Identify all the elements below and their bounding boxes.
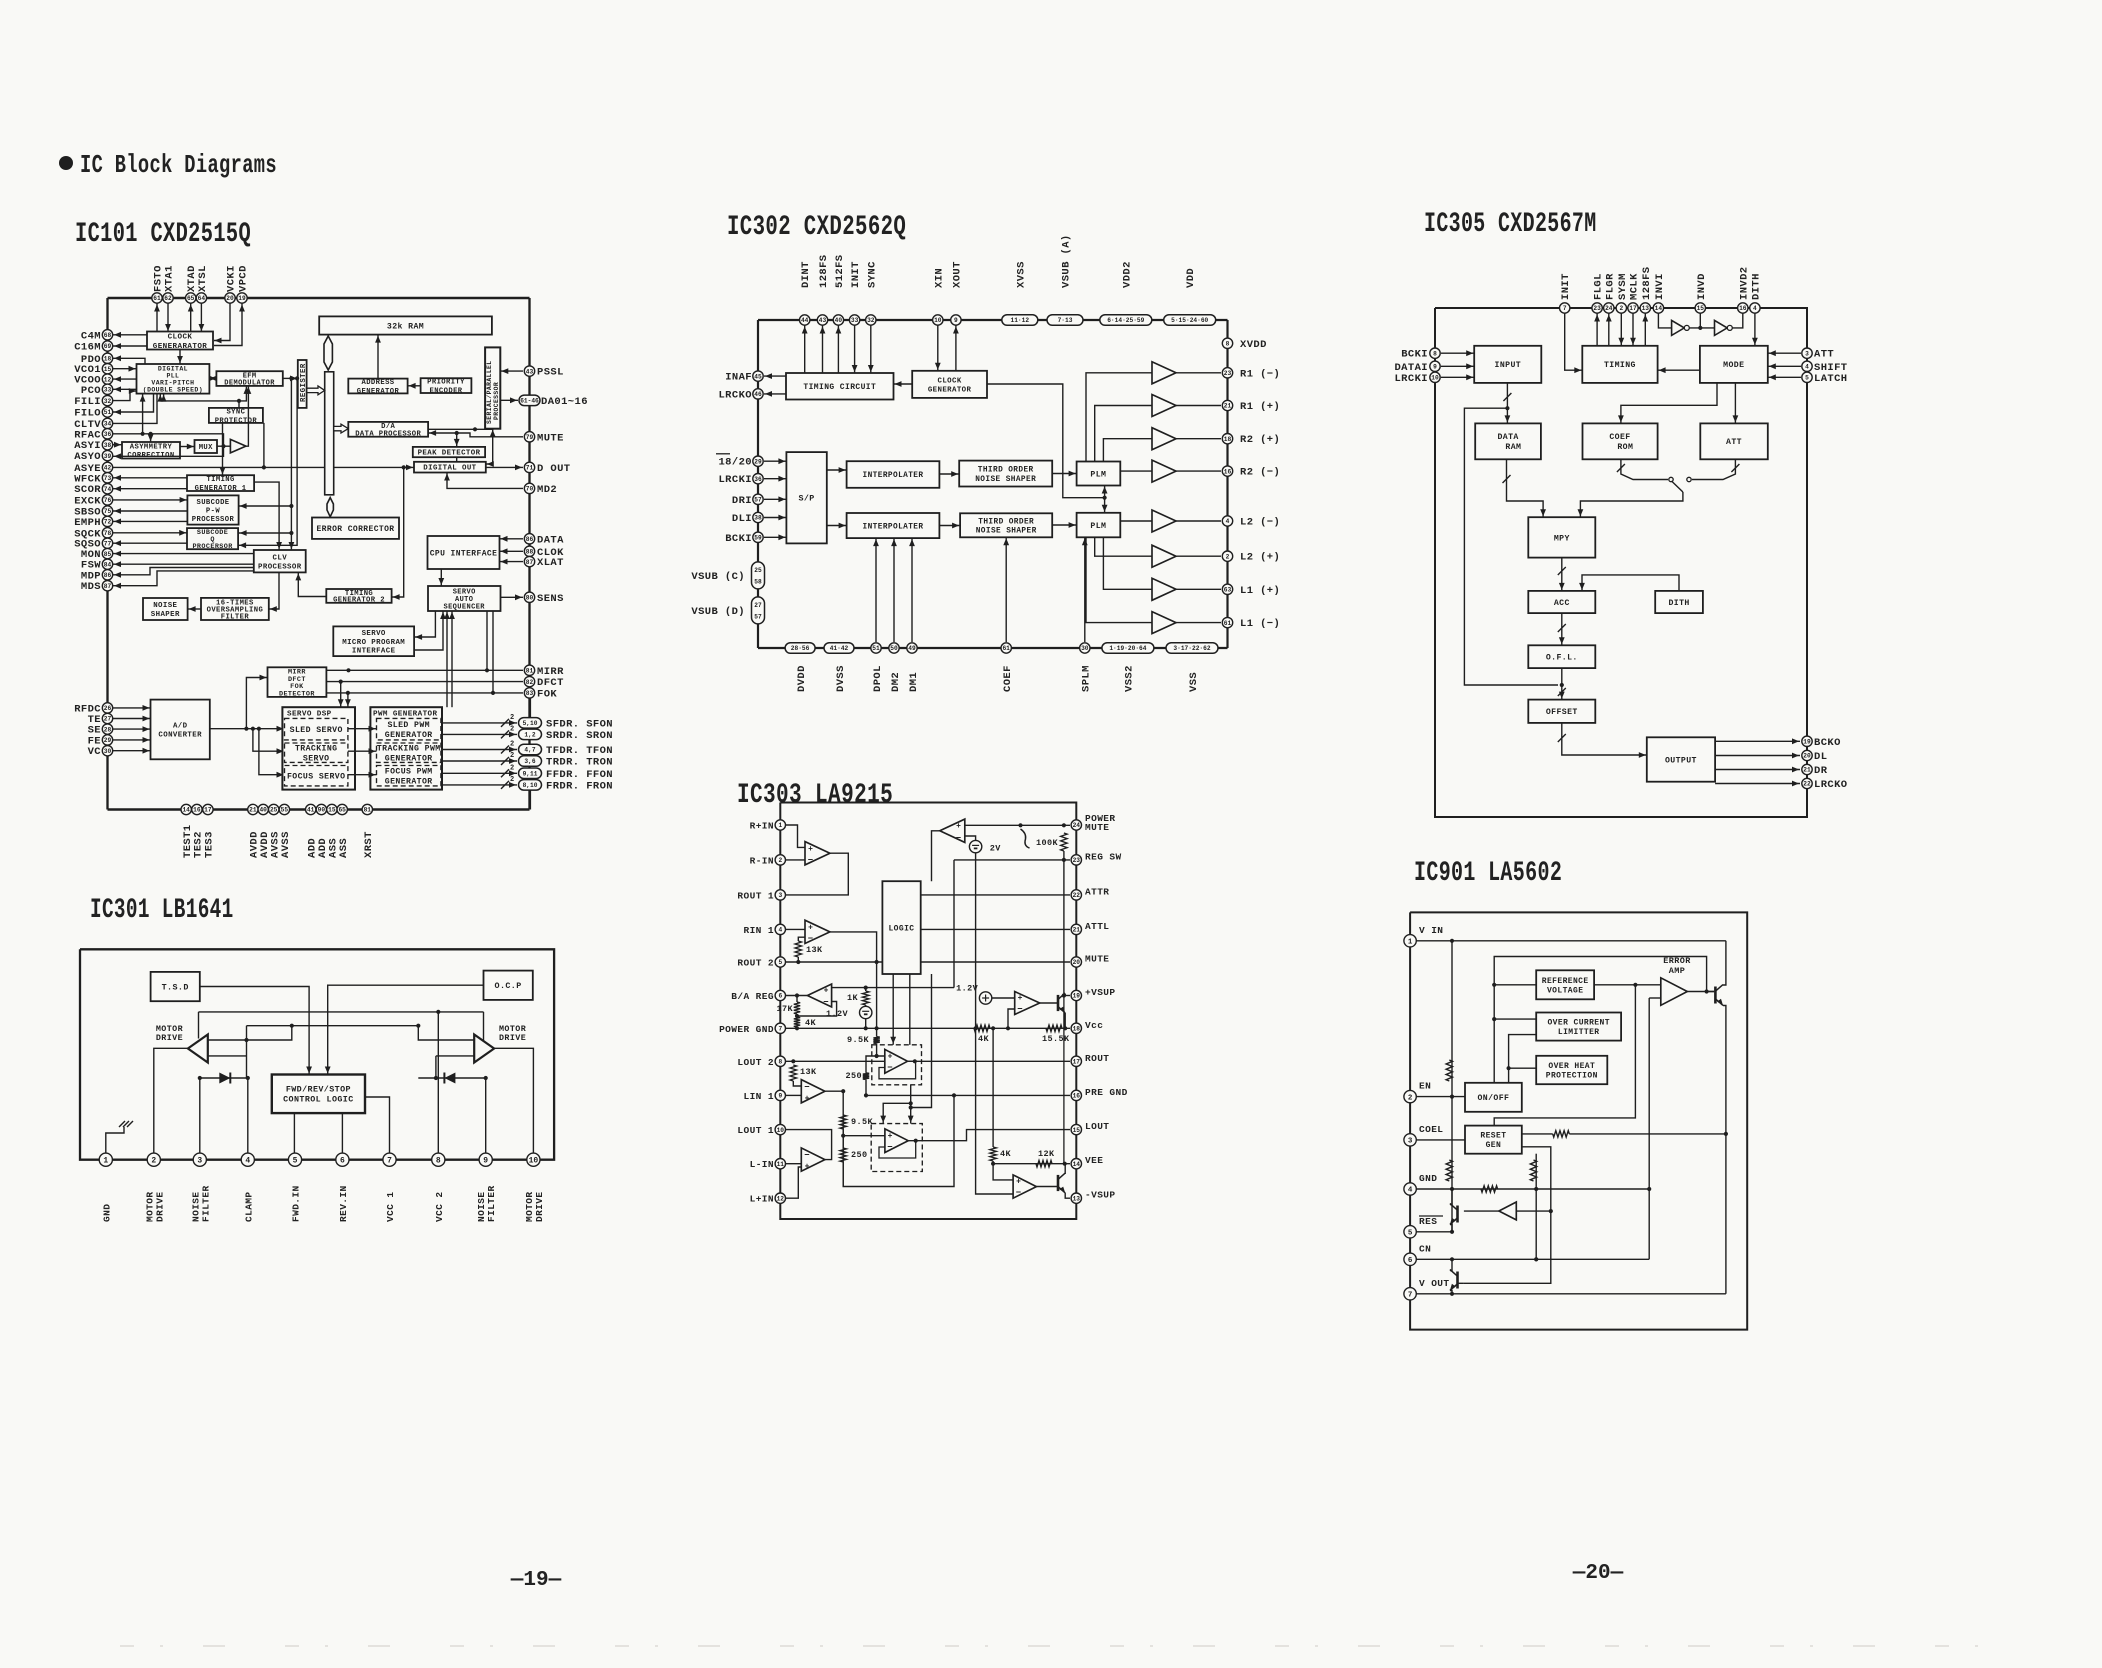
IC101 pin 81 MIRR xyxy=(524,665,534,675)
block CLOCK GENERATOR (IC302) xyxy=(912,371,987,398)
svg-text:1: 1 xyxy=(1408,939,1413,947)
IC301 pin 2 MOTOR DRIVE xyxy=(147,1153,160,1166)
svg-text:21: 21 xyxy=(1803,767,1811,774)
svg-text:GENERATOR 2: GENERATOR 2 xyxy=(333,597,385,605)
wire A6 out to LOUT xyxy=(908,1130,1070,1141)
svg-text:PROTECTOR: PROTECTOR xyxy=(215,417,258,425)
wire logic to pin7 xyxy=(365,1097,390,1160)
wire PDO xyxy=(113,358,145,364)
wire Q2 collector xyxy=(1450,1259,1452,1270)
transistor Q2 xyxy=(1450,1270,1458,1291)
wire pin4 riser xyxy=(247,1078,249,1160)
wire Q2 emitter to V OUT xyxy=(1450,1291,1452,1294)
svg-text:INTERFACE: INTERFACE xyxy=(352,647,396,655)
svg-text:15.5K: 15.5K xyxy=(1042,1034,1070,1044)
svg-text:100K: 100K xyxy=(1036,838,1059,848)
IC101 bottom pin 25 AV&#8203;SS xyxy=(269,804,279,814)
IC302 pin 63 L1 (+) xyxy=(1222,584,1232,594)
amplifier for R2 (&#8722;) xyxy=(1152,460,1176,482)
svg-text:SENS: SENS xyxy=(537,593,564,605)
svg-text:NOISE SHAPER: NOISE SHAPER xyxy=(975,476,1036,484)
block FOCUS SERVO (dashed) xyxy=(285,766,348,786)
wire DATA to CPU interface xyxy=(500,538,524,540)
svg-text:23: 23 xyxy=(1073,857,1081,864)
svg-text:ROUT: ROUT xyxy=(1085,1053,1109,1064)
wire A5 feedback xyxy=(879,1061,916,1079)
wire clock gen to digital PLL xyxy=(179,350,181,365)
svg-text:LOGIC: LOGIC xyxy=(888,924,914,933)
svg-text:17: 17 xyxy=(204,807,212,814)
svg-text:SERVO DSP: SERVO DSP xyxy=(287,711,332,719)
wire rail to pin8 xyxy=(437,1012,439,1160)
svg-text:−: − xyxy=(808,856,813,866)
svg-text:FLGL: FLGL xyxy=(1593,273,1605,300)
svg-text:—20—: —20— xyxy=(1572,1562,1624,1585)
block OVER HEAT PROTECTION xyxy=(1536,1056,1607,1084)
svg-text:PROCESSOR: PROCESSOR xyxy=(258,563,302,571)
svg-text:4K: 4K xyxy=(805,1018,817,1028)
svg-text:SEQUENCER: SEQUENCER xyxy=(443,603,485,611)
wire A6 feedback xyxy=(879,1141,916,1158)
wire RFAC up to PLL xyxy=(142,394,144,434)
dashed box R power amp xyxy=(872,1045,922,1085)
svg-text:DM2: DM2 xyxy=(890,672,902,692)
svg-text:27: 27 xyxy=(754,602,762,609)
wire 17K 4K chain xyxy=(796,996,798,1003)
svg-text:C16M: C16M xyxy=(74,342,101,354)
block DIGITAL OUT xyxy=(414,462,486,473)
wire ACC to OFL xyxy=(1561,613,1563,645)
wire PCO xyxy=(113,388,137,390)
switch contacts xyxy=(1669,477,1673,481)
svg-text:PCO: PCO xyxy=(81,385,101,397)
wire MUTE xyxy=(921,961,1070,963)
wire amp out to pin 18 xyxy=(1176,438,1221,440)
wire pwm output TRDR. TRON xyxy=(441,760,517,762)
svg-text:9.5K: 9.5K xyxy=(851,1117,874,1127)
wire PLM1 to R2- amp xyxy=(1120,470,1152,472)
svg-text:VCC 1: VCC 1 xyxy=(385,1191,396,1222)
svg-text:61: 61 xyxy=(1002,645,1010,652)
IC301 pin 1 GND xyxy=(99,1153,112,1166)
resistor 250 upper xyxy=(863,1073,869,1080)
svg-text:33: 33 xyxy=(104,387,112,394)
wire VCOO xyxy=(113,378,137,380)
svg-text:FWD/REV/STOP: FWD/REV/STOP xyxy=(286,1085,351,1095)
block MODE xyxy=(1700,346,1768,383)
wire DRI to S/P xyxy=(764,498,786,500)
wire LATCH to MODE xyxy=(1768,376,1801,378)
svg-text:GENERATOR 1: GENERATOR 1 xyxy=(195,485,247,493)
svg-text:2: 2 xyxy=(510,752,514,760)
wire MODE to ATT xyxy=(1734,383,1736,424)
wire SERVO AUTO SEQ to SENS xyxy=(501,596,524,598)
svg-text:ATTR: ATTR xyxy=(1085,886,1109,897)
+VSUP transistor xyxy=(1058,993,1065,1013)
wire DA01-16 from serial/parallel xyxy=(500,399,518,401)
svg-text:3,6: 3,6 xyxy=(524,758,535,765)
switch lever xyxy=(1672,481,1683,492)
IC303 pin 20 MUTE xyxy=(1071,957,1081,967)
wire buffer out to Q1 xyxy=(1464,1210,1499,1212)
svg-text:80: 80 xyxy=(526,595,534,602)
block CLV PROCESSOR xyxy=(254,550,306,572)
wire down to CLV processor top xyxy=(289,531,293,535)
svg-text:7: 7 xyxy=(1408,1292,1413,1300)
wire pwm output SFDR. SFON xyxy=(441,722,517,724)
wire amp to -VSUP transistor xyxy=(1036,1186,1058,1188)
svg-text:16: 16 xyxy=(193,807,201,814)
wire V IN line xyxy=(1416,940,1726,942)
svg-text:DR: DR xyxy=(1814,765,1828,777)
supply rail right xyxy=(1063,860,1065,996)
wire CLV to oversampling filter xyxy=(269,572,279,609)
IC101 bottom pin 41 A&#8203;DD xyxy=(306,804,316,814)
voltage source 1.2V (+VSUP) xyxy=(979,992,991,1004)
svg-text:R2 (−): R2 (−) xyxy=(1240,467,1280,479)
svg-text:SCOR: SCOR xyxy=(74,484,101,496)
svg-text:62: 62 xyxy=(164,295,172,302)
wire A4 out xyxy=(825,1091,954,1186)
block INTERPOLATER 2 xyxy=(847,513,940,538)
svg-text:GENERATOR: GENERATOR xyxy=(928,386,972,394)
wire mode to timing xyxy=(1658,369,1700,371)
wire ASYE line to timing gen2 xyxy=(392,467,404,597)
svg-text:86: 86 xyxy=(104,572,112,579)
wire PLM1 to R1+ amp xyxy=(1095,406,1152,462)
wire DATAI to INPUT xyxy=(1441,365,1474,367)
block S/P xyxy=(786,452,826,543)
mute amp (points left) xyxy=(940,819,965,842)
svg-text:SLED SERVO: SLED SERVO xyxy=(290,726,343,735)
svg-text:SLED PWM: SLED PWM xyxy=(387,721,430,730)
svg-text:SHAPER: SHAPER xyxy=(151,611,180,619)
wire register line 2 down to subcode Q xyxy=(238,378,297,545)
svg-text:−: − xyxy=(887,1063,892,1073)
wire TIMING GEN1 to CLV xyxy=(254,482,279,550)
svg-text:23: 23 xyxy=(1593,305,1601,312)
wire OCP to control logic xyxy=(328,985,484,1074)
wire left rail xyxy=(1451,941,1453,1232)
svg-text:20: 20 xyxy=(1073,959,1081,966)
wire RFAC xyxy=(113,434,224,446)
resistor 250 lower xyxy=(840,1148,846,1162)
IC302 pin 28&#183;56 DVDD xyxy=(785,643,815,654)
svg-text:GENERATOR: GENERATOR xyxy=(385,755,433,764)
svg-text:−: − xyxy=(887,1143,892,1153)
IC302 pin 27-57 VSUB (D) xyxy=(752,597,765,624)
IC303 pin 19 +VSUP xyxy=(1071,990,1081,1000)
svg-text:Vcc: Vcc xyxy=(1085,1020,1103,1031)
wire PLM1 to R1- amp xyxy=(1086,373,1152,462)
wire BCKI to INPUT xyxy=(1441,352,1474,354)
svg-text:L1 (−): L1 (−) xyxy=(1240,618,1280,630)
wire DATA RAM to MPY xyxy=(1507,459,1544,517)
wire amp out to pin 21 xyxy=(1176,405,1221,407)
svg-text:IC301 LB1641: IC301 LB1641 xyxy=(90,895,234,926)
svg-text:TIMING CIRCUIT: TIMING CIRCUIT xyxy=(803,383,876,392)
wire MODE to COEF ROM xyxy=(1621,383,1717,424)
svg-text:+: + xyxy=(1016,1178,1021,1187)
svg-text:86: 86 xyxy=(526,536,534,543)
wire A2 out to ROUT2 line xyxy=(830,932,877,962)
svg-text:7: 7 xyxy=(778,1026,782,1033)
svg-text:ENCODER: ENCODER xyxy=(430,388,463,396)
svg-text:ROUT 1: ROUT 1 xyxy=(737,890,774,901)
svg-text:INTERPOLATER: INTERPOLATER xyxy=(863,523,924,531)
svg-text:AVSS: AVSS xyxy=(280,831,292,858)
svg-text:70: 70 xyxy=(526,486,534,493)
svg-text:39: 39 xyxy=(104,453,112,460)
svg-text:XIN: XIN xyxy=(933,268,945,288)
svg-text:+: + xyxy=(805,1095,810,1104)
svg-text:COEL: COEL xyxy=(1419,1124,1443,1135)
wire upper rail left drop xyxy=(198,1012,200,1039)
block SUBCODE P-W PROCESSOR xyxy=(187,495,238,524)
wire OUTPUT to LRCKO xyxy=(1715,783,1800,785)
resistor 4K (VEE) xyxy=(990,1147,996,1161)
IC301 pin 10 MOTOR DRIVE xyxy=(527,1153,540,1166)
wire ROUT2 junction down rail xyxy=(876,962,878,1037)
svg-text:RIN 1: RIN 1 xyxy=(743,925,774,936)
svg-text:ASYMMETRY: ASYMMETRY xyxy=(130,443,173,451)
svg-text:DLI: DLI xyxy=(732,513,752,525)
IC302 pin 50 DM2 xyxy=(889,643,899,653)
svg-text:79: 79 xyxy=(526,434,534,441)
wire SMPI to SAS xyxy=(414,611,443,650)
IC301 pin 4 CLAMP xyxy=(241,1153,254,1166)
wire supply rail to VEE xyxy=(1063,996,1065,1164)
wire clock gen to C4M pin 68 xyxy=(113,334,147,336)
IC101 pin 70 MD2 xyxy=(524,483,534,493)
svg-text:32: 32 xyxy=(867,317,875,324)
block SERVO AUTO SEQUENCER xyxy=(428,586,501,611)
svg-text:SERVO: SERVO xyxy=(362,630,386,638)
svg-text:13: 13 xyxy=(1073,1195,1081,1202)
svg-text:8: 8 xyxy=(1226,341,1230,348)
svg-text:BCKI: BCKI xyxy=(1401,349,1428,361)
svg-text:30: 30 xyxy=(104,748,112,755)
amplifier for L1 (+) xyxy=(1152,578,1176,600)
svg-text:CLV: CLV xyxy=(273,554,288,562)
wire mid rail to RESET xyxy=(1494,985,1635,1126)
wire L+IN to A7 plus xyxy=(786,1167,801,1198)
svg-text:L+IN: L+IN xyxy=(750,1194,774,1205)
svg-text:51: 51 xyxy=(872,645,880,652)
svg-text:13K: 13K xyxy=(800,1067,817,1077)
block PLM 2 xyxy=(1077,513,1121,538)
svg-text:13: 13 xyxy=(1642,305,1650,312)
wire inverter2 to pin16 xyxy=(1732,314,1743,328)
svg-text:−: − xyxy=(804,1151,809,1161)
IC101 pin 87 XLAT xyxy=(524,556,534,566)
wire noise shaper2 to PLM2 xyxy=(1052,524,1076,526)
svg-text:25: 25 xyxy=(270,807,278,814)
wire oversampling to noise shaper xyxy=(188,608,201,610)
amp A7 L-IN xyxy=(801,1148,825,1171)
svg-text:2V: 2V xyxy=(990,843,1002,853)
svg-text:ATT: ATT xyxy=(1814,349,1834,361)
block ON/OFF xyxy=(1465,1083,1522,1112)
svg-text:XTA1: XTA1 xyxy=(164,265,176,292)
wire branch to tracking servo xyxy=(251,727,255,731)
wire -VSUP transistor collector xyxy=(1064,1164,1066,1174)
wire pin4 DITH to mode xyxy=(1754,314,1756,346)
wire ON/OFF up branch xyxy=(1509,1035,1537,1083)
svg-text:51: 51 xyxy=(104,409,112,416)
svg-text:DATA: DATA xyxy=(1497,433,1518,442)
wire pin33 to timing xyxy=(854,326,856,374)
wire POWER GND line xyxy=(786,1027,1070,1029)
wire R+IN to amp xyxy=(786,825,805,847)
svg-text:14: 14 xyxy=(1073,1161,1081,1168)
svg-text:5: 5 xyxy=(293,1157,298,1166)
wire tracking servo to tracking pwm xyxy=(348,750,377,752)
svg-text:14: 14 xyxy=(182,807,190,814)
IC302 pin 61 COEF xyxy=(1001,643,1011,653)
svg-text:SRDR. SRON: SRDR. SRON xyxy=(546,730,613,742)
wire MPY to ACC xyxy=(1561,558,1563,591)
svg-text:VC: VC xyxy=(88,746,102,758)
wire RFAC down to asymmetry xyxy=(150,434,152,442)
wire logic to pin5 xyxy=(293,1113,295,1160)
svg-text:+: + xyxy=(808,924,813,933)
svg-text:−: − xyxy=(1017,1005,1022,1015)
block SYNC PROTECTOR xyxy=(209,408,263,425)
svg-text:+: + xyxy=(956,822,961,831)
svg-text:L2 (−): L2 (−) xyxy=(1240,517,1280,529)
IC305 pin 21 DR xyxy=(1802,764,1812,774)
wire ADDRESS GENERATOR to 32k RAM xyxy=(377,335,379,379)
svg-text:83: 83 xyxy=(526,690,534,697)
svg-text:—19—: —19— xyxy=(510,1569,562,1592)
svg-text:LATCH: LATCH xyxy=(1814,373,1848,385)
IC302 pin 29 18/20 xyxy=(753,456,763,466)
svg-text:85: 85 xyxy=(104,551,112,558)
wire LOGIC down C xyxy=(911,974,932,1108)
wire Q2 base xyxy=(1458,1282,1464,1284)
svg-text:20: 20 xyxy=(226,295,234,302)
svg-text:18: 18 xyxy=(104,356,112,363)
wire pin1 ground xyxy=(106,1127,124,1160)
wire SAS down to PWM generator B xyxy=(451,611,453,707)
svg-text:9,11: 9,11 xyxy=(523,771,538,778)
wire amp out to pin 61 xyxy=(1176,622,1221,624)
IC303 pin 17 ROUT xyxy=(1071,1056,1081,1066)
amplifier for L2 (+) xyxy=(1152,545,1176,567)
block TIMING xyxy=(1582,346,1657,383)
svg-text:2: 2 xyxy=(1619,305,1623,312)
svg-text:SFDR. SFON: SFDR. SFON xyxy=(546,718,613,730)
svg-text:61-46: 61-46 xyxy=(520,398,539,405)
block SERIAL/PARALLEL PROCESSOR xyxy=(485,347,500,428)
wire A3 feedback xyxy=(797,1002,837,1017)
svg-text:5: 5 xyxy=(1805,375,1809,382)
svg-text:3: 3 xyxy=(197,1157,202,1166)
svg-text:4: 4 xyxy=(245,1157,250,1166)
wire SE to A/D converter xyxy=(113,728,151,730)
IC301 pin 9 NOISE FILTER xyxy=(479,1153,492,1166)
svg-text:IC303 LA9215: IC303 LA9215 xyxy=(737,779,893,811)
wire ATTR xyxy=(921,894,1070,896)
svg-text:+: + xyxy=(888,1053,893,1062)
svg-text:43: 43 xyxy=(526,368,534,375)
wire pin32 to timing xyxy=(870,326,872,374)
wire CLTV xyxy=(113,394,157,424)
svg-text:FFDR. FFON: FFDR. FFON xyxy=(546,769,613,781)
svg-text:17K: 17K xyxy=(776,1004,793,1014)
svg-text:L1 (+): L1 (+) xyxy=(1240,585,1280,597)
svg-text:16: 16 xyxy=(1739,305,1747,312)
svg-text:INIT: INIT xyxy=(850,261,862,288)
wire COEF riser xyxy=(1005,537,1007,642)
IC305 outer border xyxy=(1435,308,1807,817)
wire box link branch xyxy=(883,1103,911,1123)
svg-text:MDS: MDS xyxy=(81,581,101,593)
wire motor drive L upper input xyxy=(208,1026,292,1040)
svg-text:DITH: DITH xyxy=(1668,599,1689,608)
diode D1 xyxy=(219,1073,230,1084)
wire PLM1 to R2+ amp xyxy=(1103,439,1152,462)
wire OUTPUT to BCKO xyxy=(1715,740,1800,742)
wire branch to subcode P-W upper xyxy=(289,504,293,508)
svg-text:S/P: S/P xyxy=(798,494,814,504)
resistor 9.5K lower xyxy=(840,1115,846,1129)
IC301 pin 6 REV.IN xyxy=(336,1153,349,1166)
wire register line down to subcode P-W xyxy=(239,378,292,533)
svg-text:1K: 1K xyxy=(847,993,859,1003)
wire clock gen to timing xyxy=(894,383,913,385)
svg-text:41: 41 xyxy=(307,807,315,814)
wire focus servo to focus pwm xyxy=(348,774,377,776)
svg-text:LRCKO: LRCKO xyxy=(1814,779,1848,791)
wire motor L output to pin2 xyxy=(154,1048,188,1159)
amp A6 L power xyxy=(885,1129,908,1153)
svg-text:81: 81 xyxy=(364,807,372,814)
svg-text:40: 40 xyxy=(259,807,267,814)
svg-text:82: 82 xyxy=(526,679,534,686)
wire peak detector to digital out xyxy=(456,457,458,462)
inverter 2 xyxy=(1715,320,1733,335)
block A/D CONVERTER xyxy=(151,700,210,760)
svg-text:VSUB (D): VSUB (D) xyxy=(691,606,745,618)
wire transistor emitter to vcc line xyxy=(1064,1013,1066,1028)
block PLM 1 xyxy=(1077,462,1121,486)
wire buffer output to EFM xyxy=(246,386,249,446)
svg-text:LRCKI: LRCKI xyxy=(718,474,752,486)
svg-text:10: 10 xyxy=(1431,375,1439,382)
svg-text:72: 72 xyxy=(104,519,112,526)
amp A4 LIN1 xyxy=(801,1080,825,1103)
wire pin19 VPCD to clock generator xyxy=(214,304,242,346)
wire pwm output FRDR. FRON xyxy=(441,784,517,786)
svg-text:18: 18 xyxy=(1073,1026,1081,1033)
wire pin64 to clock generator xyxy=(200,304,202,332)
svg-text:VPCD: VPCD xyxy=(238,265,250,292)
wire FSW xyxy=(113,563,254,565)
block SLED PWM GENERATOR (dashed) xyxy=(377,718,441,740)
svg-text:VDD: VDD xyxy=(1185,268,1197,288)
IC101 bottom pin 90 A&#8203;DD xyxy=(316,804,326,814)
svg-text:49: 49 xyxy=(908,645,916,652)
motor drive left amp xyxy=(188,1035,208,1063)
svg-text:PRIORITY: PRIORITY xyxy=(427,379,465,387)
block TIMING GENERATOR 2 xyxy=(326,589,391,605)
wire amp out to pin 2 xyxy=(1176,555,1221,557)
svg-text:XVSS: XVSS xyxy=(1015,261,1027,288)
svg-text:24: 24 xyxy=(1605,305,1613,312)
svg-text:ASS: ASS xyxy=(338,838,350,858)
